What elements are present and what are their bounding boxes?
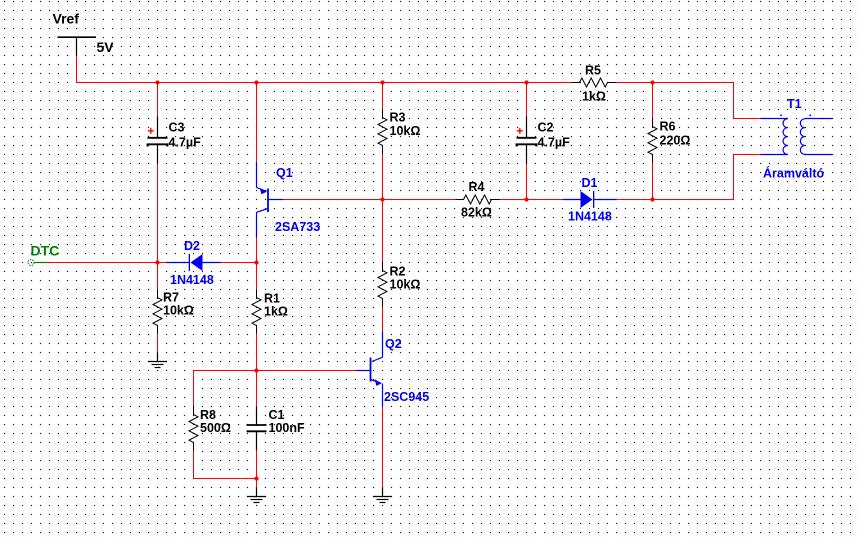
svg-text:Q2: Q2 (385, 337, 402, 351)
svg-text:2SA733: 2SA733 (275, 220, 320, 234)
resistor R7 10k vertical (153, 263, 194, 353)
power symbol Vref (53, 11, 115, 56)
node junction R6/top (650, 80, 654, 84)
capacitor C2 4.7uF polarized (517, 83, 571, 200)
svg-text:10kΩ: 10kΩ (390, 124, 421, 138)
svg-text:2SC945: 2SC945 (384, 390, 429, 404)
wire Vref stem to top bus (76, 56, 78, 84)
svg-text:R5: R5 (585, 63, 601, 77)
svg-text:500Ω: 500Ω (200, 421, 231, 435)
svg-text:100nF: 100nF (269, 421, 305, 435)
ground under R7 (148, 353, 167, 368)
svg-text:10kΩ: 10kΩ (163, 303, 194, 317)
svg-text:Q1: Q1 (276, 166, 293, 180)
node junction C2 bottom (524, 197, 528, 201)
wire DTC to D2 line (49, 262, 167, 264)
node junction R1/C1/base (254, 368, 258, 372)
port DTC (28, 243, 59, 266)
transformer T1 Aramvalto (761, 97, 833, 181)
wire top bus y=82.5 (77, 82, 734, 84)
resistor R4 82k horizontal (456, 180, 500, 220)
resistor R3 10k vertical (378, 83, 420, 200)
wire second bus y=199.5 (383, 199, 653, 201)
svg-text:D1: D1 (582, 176, 598, 190)
svg-text:4.7µF: 4.7µF (538, 135, 571, 149)
svg-text:10kΩ: 10kΩ (390, 277, 421, 291)
svg-text:5V: 5V (97, 39, 115, 55)
diode D2 1N4148 (167, 239, 221, 287)
svg-text:C2: C2 (538, 120, 554, 134)
wire C1 node to ground (256, 479, 258, 488)
svg-text:1kΩ: 1kΩ (582, 89, 606, 103)
wire base line y=370.5 (257, 370, 357, 372)
wire D2 to Q1 collector node (221, 262, 257, 264)
svg-text:DTC: DTC (31, 243, 60, 259)
wire top bus to transformer primary top (734, 83, 761, 119)
svg-text:1N4148: 1N4148 (170, 273, 214, 287)
svg-text:220Ω: 220Ω (660, 133, 691, 147)
node junction C3/top (155, 80, 159, 84)
svg-text:T1: T1 (787, 97, 802, 111)
resistor R5 1k horizontal (572, 63, 616, 103)
node junction Q1/top (254, 80, 258, 84)
wire R8 branch top (194, 370, 257, 372)
wire R8 bottom to ground node (193, 478, 257, 480)
svg-text:Áramváltó: Áramváltó (763, 165, 824, 180)
diode D1 1N4148 (563, 176, 617, 224)
svg-text:R1: R1 (264, 291, 280, 305)
svg-text:82kΩ: 82kΩ (461, 205, 492, 219)
node junction C1 bottom/ground (254, 476, 258, 480)
svg-text:R6: R6 (660, 119, 676, 133)
ground under Q2 (373, 488, 392, 503)
transistor Q2 2SC945 NPN (356, 331, 429, 407)
svg-text:1N4148: 1N4148 (568, 209, 612, 223)
ground under C1 (247, 488, 266, 503)
svg-text:R8: R8 (200, 408, 216, 422)
wire Q1 collector down (256, 238, 258, 263)
svg-text:4.7µF: 4.7µF (169, 135, 202, 149)
capacitor C3 4.7uF polarized (148, 83, 202, 263)
resistor R1 1k vertical (252, 263, 288, 371)
node junction C3/R7/D2 (155, 260, 159, 264)
resistor R6 220 vertical (648, 83, 690, 200)
node junction R3/R2 cross (380, 197, 384, 201)
node junction Q1c/R1/D2 (254, 260, 258, 264)
svg-text:D2: D2 (184, 239, 200, 253)
svg-text:R3: R3 (390, 110, 406, 124)
wire Q1 base to R3 node (283, 199, 383, 201)
svg-text:R7: R7 (163, 290, 179, 304)
svg-text:C1: C1 (269, 408, 285, 422)
svg-text:R2: R2 (390, 264, 406, 278)
node junction C2/top (524, 80, 528, 84)
svg-text:C3: C3 (169, 120, 185, 134)
node junction R3/top (380, 80, 384, 84)
svg-text:R4: R4 (469, 180, 485, 194)
capacitor C1 100nF (247, 371, 305, 479)
wire transformer primary bottom to second bus (653, 155, 761, 200)
svg-text:1kΩ: 1kΩ (264, 304, 288, 318)
wire Q2 emitter to ground (382, 407, 384, 488)
node junction R6 bottom (650, 197, 654, 201)
resistor R8 500 vertical (189, 371, 231, 480)
resistor R2 10k vertical (378, 200, 420, 332)
transistor Q1 2SA733 PNP (257, 83, 321, 238)
svg-text:Vref: Vref (53, 11, 80, 27)
